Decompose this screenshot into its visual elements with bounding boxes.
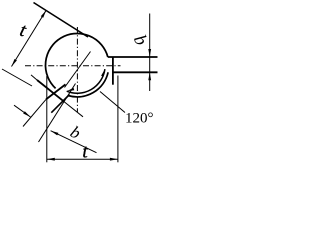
svg-text:b: b bbox=[130, 32, 152, 49]
svg-text:b: b bbox=[67, 122, 84, 143]
svg-text:t: t bbox=[82, 141, 88, 162]
svg-text:t: t bbox=[18, 20, 29, 42]
svg-text:120°: 120° bbox=[125, 111, 154, 127]
